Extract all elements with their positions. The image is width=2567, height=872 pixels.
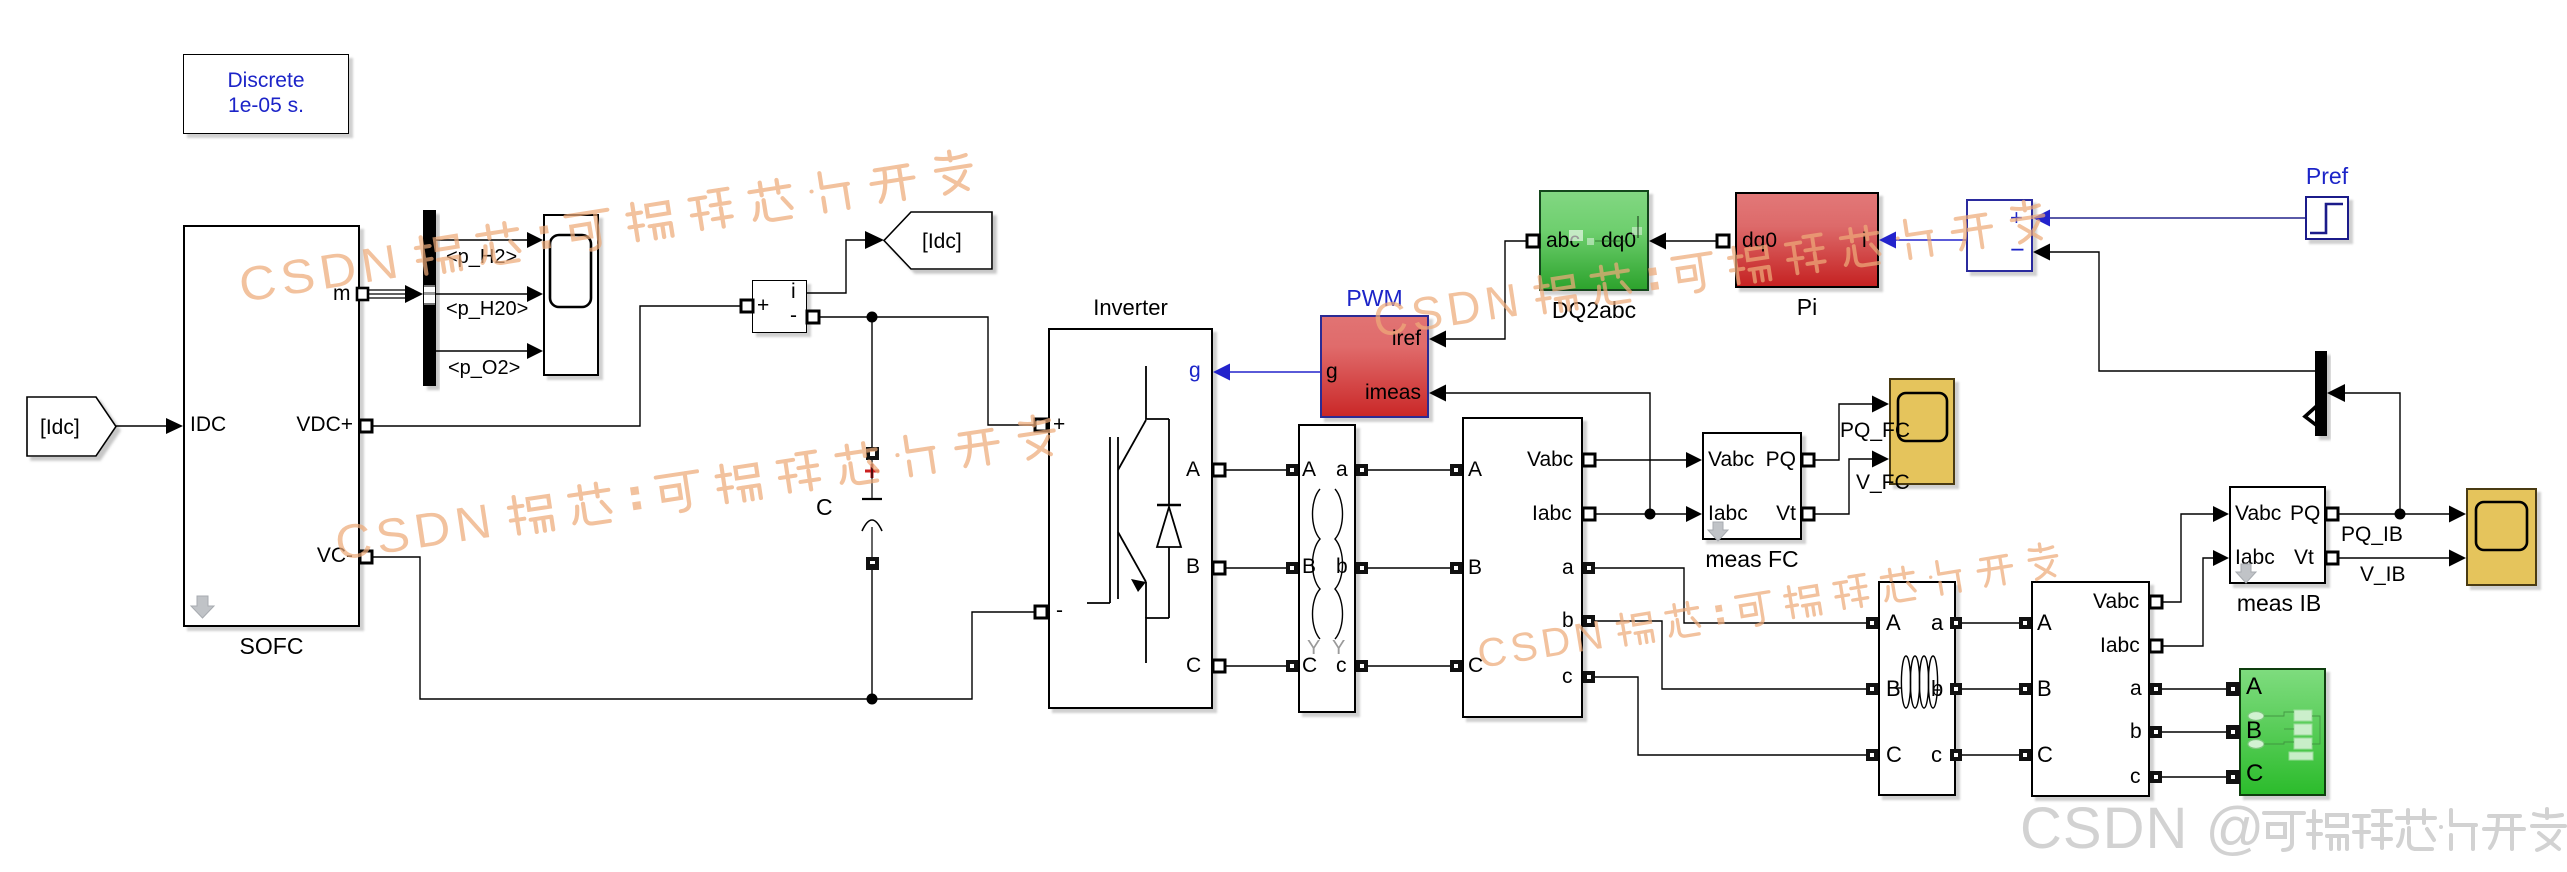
watermark diagonal 2 [332,410,1059,571]
Pi output port square [1717,235,1729,247]
wire selector to scope p_H20 [436,293,528,295]
IGBT emitter diagonal [1118,532,1146,582]
RL branch port squares right [1950,617,1962,629]
RL branch coil icon [1896,656,1940,708]
bus selector port marker [424,285,435,305]
block name DQ2abc [1539,297,1649,324]
wire label <p_H2> [446,246,517,268]
junction dot sensor minus node [867,312,878,323]
wire meas2 Iabc to meas IB [2156,558,2213,646]
block name PWM (blue) [1320,285,1429,312]
diode bar [1157,504,1181,506]
wire meas Iabc to meas FC [1595,513,1686,515]
wire PQ_IB junction to selector2 [2345,393,2400,514]
sensor label + [757,295,769,317]
wire label PQ_FC [1840,420,1910,442]
wire transformer a to meas A [1368,469,1450,471]
pwm label iref [1370,328,1421,350]
watermark diagonal 3 [1370,194,2048,347]
block name Pref (blue) [2290,163,2364,190]
block name Pi [1735,294,1879,321]
wire transformer b to meas B [1368,567,1450,569]
arrowhead PWM imeas [1429,385,1446,402]
wire VDC+ to current sensor [372,306,747,426]
arrowhead meas FC Vabc [1686,452,1702,468]
sum label minus [2010,239,2025,261]
wire meas IB PQ to scope [2332,513,2450,515]
arrowhead scope PQ_FC bottom [1872,451,1889,468]
wire RL b to meas2 B [1962,688,2019,690]
wire inverter B to transformer B [1225,567,1286,569]
inverter port label A [1186,459,1200,481]
port square VDC+ [360,420,372,432]
bus wire m triple line [368,290,414,298]
port label VC- [305,545,353,567]
wire label <p_O2> [448,357,520,379]
svg-text:CSDN @: CSDN @ [2020,796,2265,861]
wire selector to scope p_O2 [436,350,528,352]
dq2abc label abc [1546,230,1580,252]
load port squares [2226,682,2240,696]
arrowhead p_H2 [527,232,543,248]
block Scope1 (pressures scope) [543,214,599,376]
arrowhead g blue [1213,364,1230,381]
pwm label imeas [1352,382,1421,404]
capacitor C1 red polarity plus [865,464,879,478]
inverter port label B [1186,556,1200,578]
pi label i [1862,230,1867,252]
block three-phase load (green) [2239,668,2326,796]
inverter output port squares [1213,464,1225,476]
left meas input port squares [1450,464,1462,476]
arrowhead Sum minus [2033,244,2050,261]
block three-phase series RL branch [1878,581,1956,796]
left meas output port squares [1583,454,1595,466]
diode lower lead [1168,547,1170,618]
selector2 chevron icon [2305,403,2320,428]
inverter port label - [1056,600,1063,622]
transformer label c [1336,655,1347,677]
arrowhead scope IB PQ [2449,506,2466,523]
port label VDC+ [285,414,353,436]
block name Inverter [1048,295,1213,321]
wire PWM g to inverter g (blue) [1229,371,1320,373]
transformer label Y Y [1307,637,1320,659]
wire meas2 a to load A [2162,688,2226,690]
bridge bottom connector [1146,618,1169,663]
inverter port label C [1186,655,1201,677]
load icon connect lines [2264,712,2320,744]
inverter IGBT gate bars [1087,366,1181,663]
load icon rects [2289,710,2313,760]
inverter port square minus [1035,606,1047,618]
block name meas FC [1677,546,1827,573]
block Sum (blue bordered) [1966,199,2033,272]
meas FC output port squares [1802,454,1814,466]
port label IDC [190,414,226,436]
arrowhead DQ2abc dq0 input [1649,233,1666,250]
arrowhead p_H20 [527,286,543,302]
sensor label i [791,281,796,303]
wire Pi to DQ2abc [1665,240,1723,242]
arrowhead PWM iref [1429,331,1446,348]
wire selector to scope p_H2 [436,239,528,241]
arrowhead meas FC Iabc [1686,506,1702,522]
measfc label Vt [1765,503,1796,525]
meas IB mask arrow icon [2236,564,2256,583]
block Scope PQ_FC (yellow) [1889,378,1955,485]
junction dot bottom node [867,694,878,705]
wire RL a to meas2 A [1962,622,2019,624]
arrowhead bus into selector [405,285,423,303]
diode branch upper lead [1168,419,1170,505]
arrowhead into IDC [166,418,183,434]
wire label V_FC [1856,472,1910,494]
inverter port label g (blue) [1189,360,1201,382]
arrowhead scope PQ_FC top [1872,396,1889,413]
transformer label C [1302,655,1317,677]
block Pref step source [2305,196,2349,240]
scope PQ_IB screen [2476,502,2527,550]
port square sensor plus input [741,300,753,312]
wire transformer c to meas C [1368,665,1450,667]
capacitor C1 top port [866,447,879,460]
from tag [Idc] [27,397,116,456]
wire label PQ_IB [2341,524,2403,546]
wire Pref to Sum plus [2049,217,2305,219]
block Inverter [1048,328,1213,709]
block Pi (red gradient) [1735,192,1879,288]
selector2 bar [2315,351,2327,436]
meas FC output PQ wire [1808,404,1873,460]
wire meas c to RL branch C [1595,677,1866,755]
inverter port square plus [1035,419,1047,431]
wire From to IDC [116,425,169,427]
goto tag [Idc] [884,212,992,269]
wire meas a to RL branch A [1595,568,1866,623]
measfc label Vabc [1708,449,1754,471]
wire label V_IB [2360,564,2406,586]
SOFC mask arrow icon [191,596,214,618]
transformer left port squares [1286,464,1298,476]
block Discrete powergui sample time [183,54,349,134]
arrowhead p_O2 [527,343,543,359]
block meas FC [1702,432,1802,540]
port square VC- [360,551,372,563]
DQ2abc output port square [1527,235,1539,247]
wire node down to capacitor [871,317,873,448]
junction dot PQ_IB [2395,509,2406,520]
RL branch port squares left [1866,617,1878,629]
sensor label minus [790,305,797,327]
pwm label g [1326,361,1338,383]
arrowhead Pi i input blue [1879,232,1896,249]
IGBT collector lead [1146,366,1169,419]
meas2 output port squares Vabc Iabc [2150,596,2162,608]
wire label <p_H20> [446,298,528,320]
inverter port label + [1053,414,1065,436]
dq2abc label dq0 [1601,230,1636,252]
arrowhead into goto tag [865,231,884,249]
watermark diagonal 4 [1474,537,2061,677]
block name SOFC [183,633,360,660]
wire meas b to RL branch B [1595,621,1866,689]
load icon ellipses [2248,712,2264,749]
Pref step icon [2310,204,2343,233]
diode triangle [1157,507,1181,547]
wire Iabc tap up to PWM imeas [1445,393,1650,514]
wire meas2 Vabc to meas IB [2156,514,2213,602]
meas IB output port squares [2326,508,2338,520]
block meas IB [2229,486,2326,584]
block name meas IB [2204,590,2354,617]
arrowhead meas IB Vabc [2213,506,2229,522]
wire sensor i output to goto [807,240,866,293]
port square m output [357,288,368,300]
watermark diagonal 1 [235,144,975,313]
capacitor label C [816,496,833,518]
transformer winding secondary [1335,489,1343,639]
block Scope PQ_IB (yellow) [2466,488,2537,586]
IGBT emitter arrow tick [1131,579,1146,592]
meas FC output Vt wire [1808,459,1873,514]
transformer right port squares [1356,464,1368,476]
port square sensor minus [807,311,819,323]
wire sensor minus to inverter plus [813,317,1035,425]
capacitor C1 body [862,460,882,558]
transformer winding primary [1313,489,1321,639]
transformer label a [1336,459,1348,481]
wire Sum to Pi (blue) [1895,239,1966,241]
wire meas2 b to load B [2162,731,2226,733]
wire inverter A to transformer A [1225,469,1286,471]
watermark CSDN credit bottom right [2020,796,2565,861]
arrowhead selector2 input [2327,384,2345,402]
wire meas2 c to load C [2162,776,2226,778]
block DQ2abc (green gradient) [1539,190,1649,291]
block three-phase VI measurement IB side [2031,581,2150,797]
arrowhead Sum plus blue [2033,210,2050,227]
wire RL c to meas2 C [1962,754,2019,756]
arrowhead meas IB Iabc [2213,550,2229,566]
wire inverter C to transformer C [1225,665,1286,667]
pi label dq0 [1742,230,1777,252]
IGBT collector diagonal [1118,420,1146,470]
wire capacitor to bottom node [871,570,873,699]
bus selector bar [423,210,436,386]
transformer label A [1302,459,1316,481]
IGBT emitter lead [1087,602,1110,604]
transformer label B [1302,556,1316,578]
port label m [333,283,351,305]
wire meas IB Vt to scope [2332,557,2450,559]
wire VC- to bottom node [372,557,872,699]
wire DQ2abc abc to PWM iref [1445,241,1527,339]
block current measurement sensor [752,280,807,333]
meas2 output port squares abc [2150,683,2162,695]
sum label + [2010,207,2023,229]
arrowhead scope IB Vt [2449,550,2466,567]
block three-phase VI measurement FC side [1462,417,1583,718]
block SOFC subsystem [183,225,360,627]
transformer label b [1336,556,1348,578]
meas2 input port squares [2019,617,2031,629]
junction dot Iabc tap [1645,509,1656,520]
scope PQ_FC screen [1898,393,1947,441]
meas FC mask arrow icon [1708,522,1728,541]
wire selector2 to Sum minus [2049,252,2315,371]
wire meas Vabc to meas FC [1595,459,1686,461]
measfc label PQ [1765,449,1796,471]
scope1 screen [550,235,591,307]
capacitor C1 bottom port [866,557,879,570]
block PWM (red gradient) [1320,315,1429,418]
DQ2abc icon marks [1569,227,1642,245]
wire bottom node to inverter minus [872,612,1035,699]
measfc label Iabc [1708,503,1748,525]
block three-phase transformer [1298,424,1356,713]
